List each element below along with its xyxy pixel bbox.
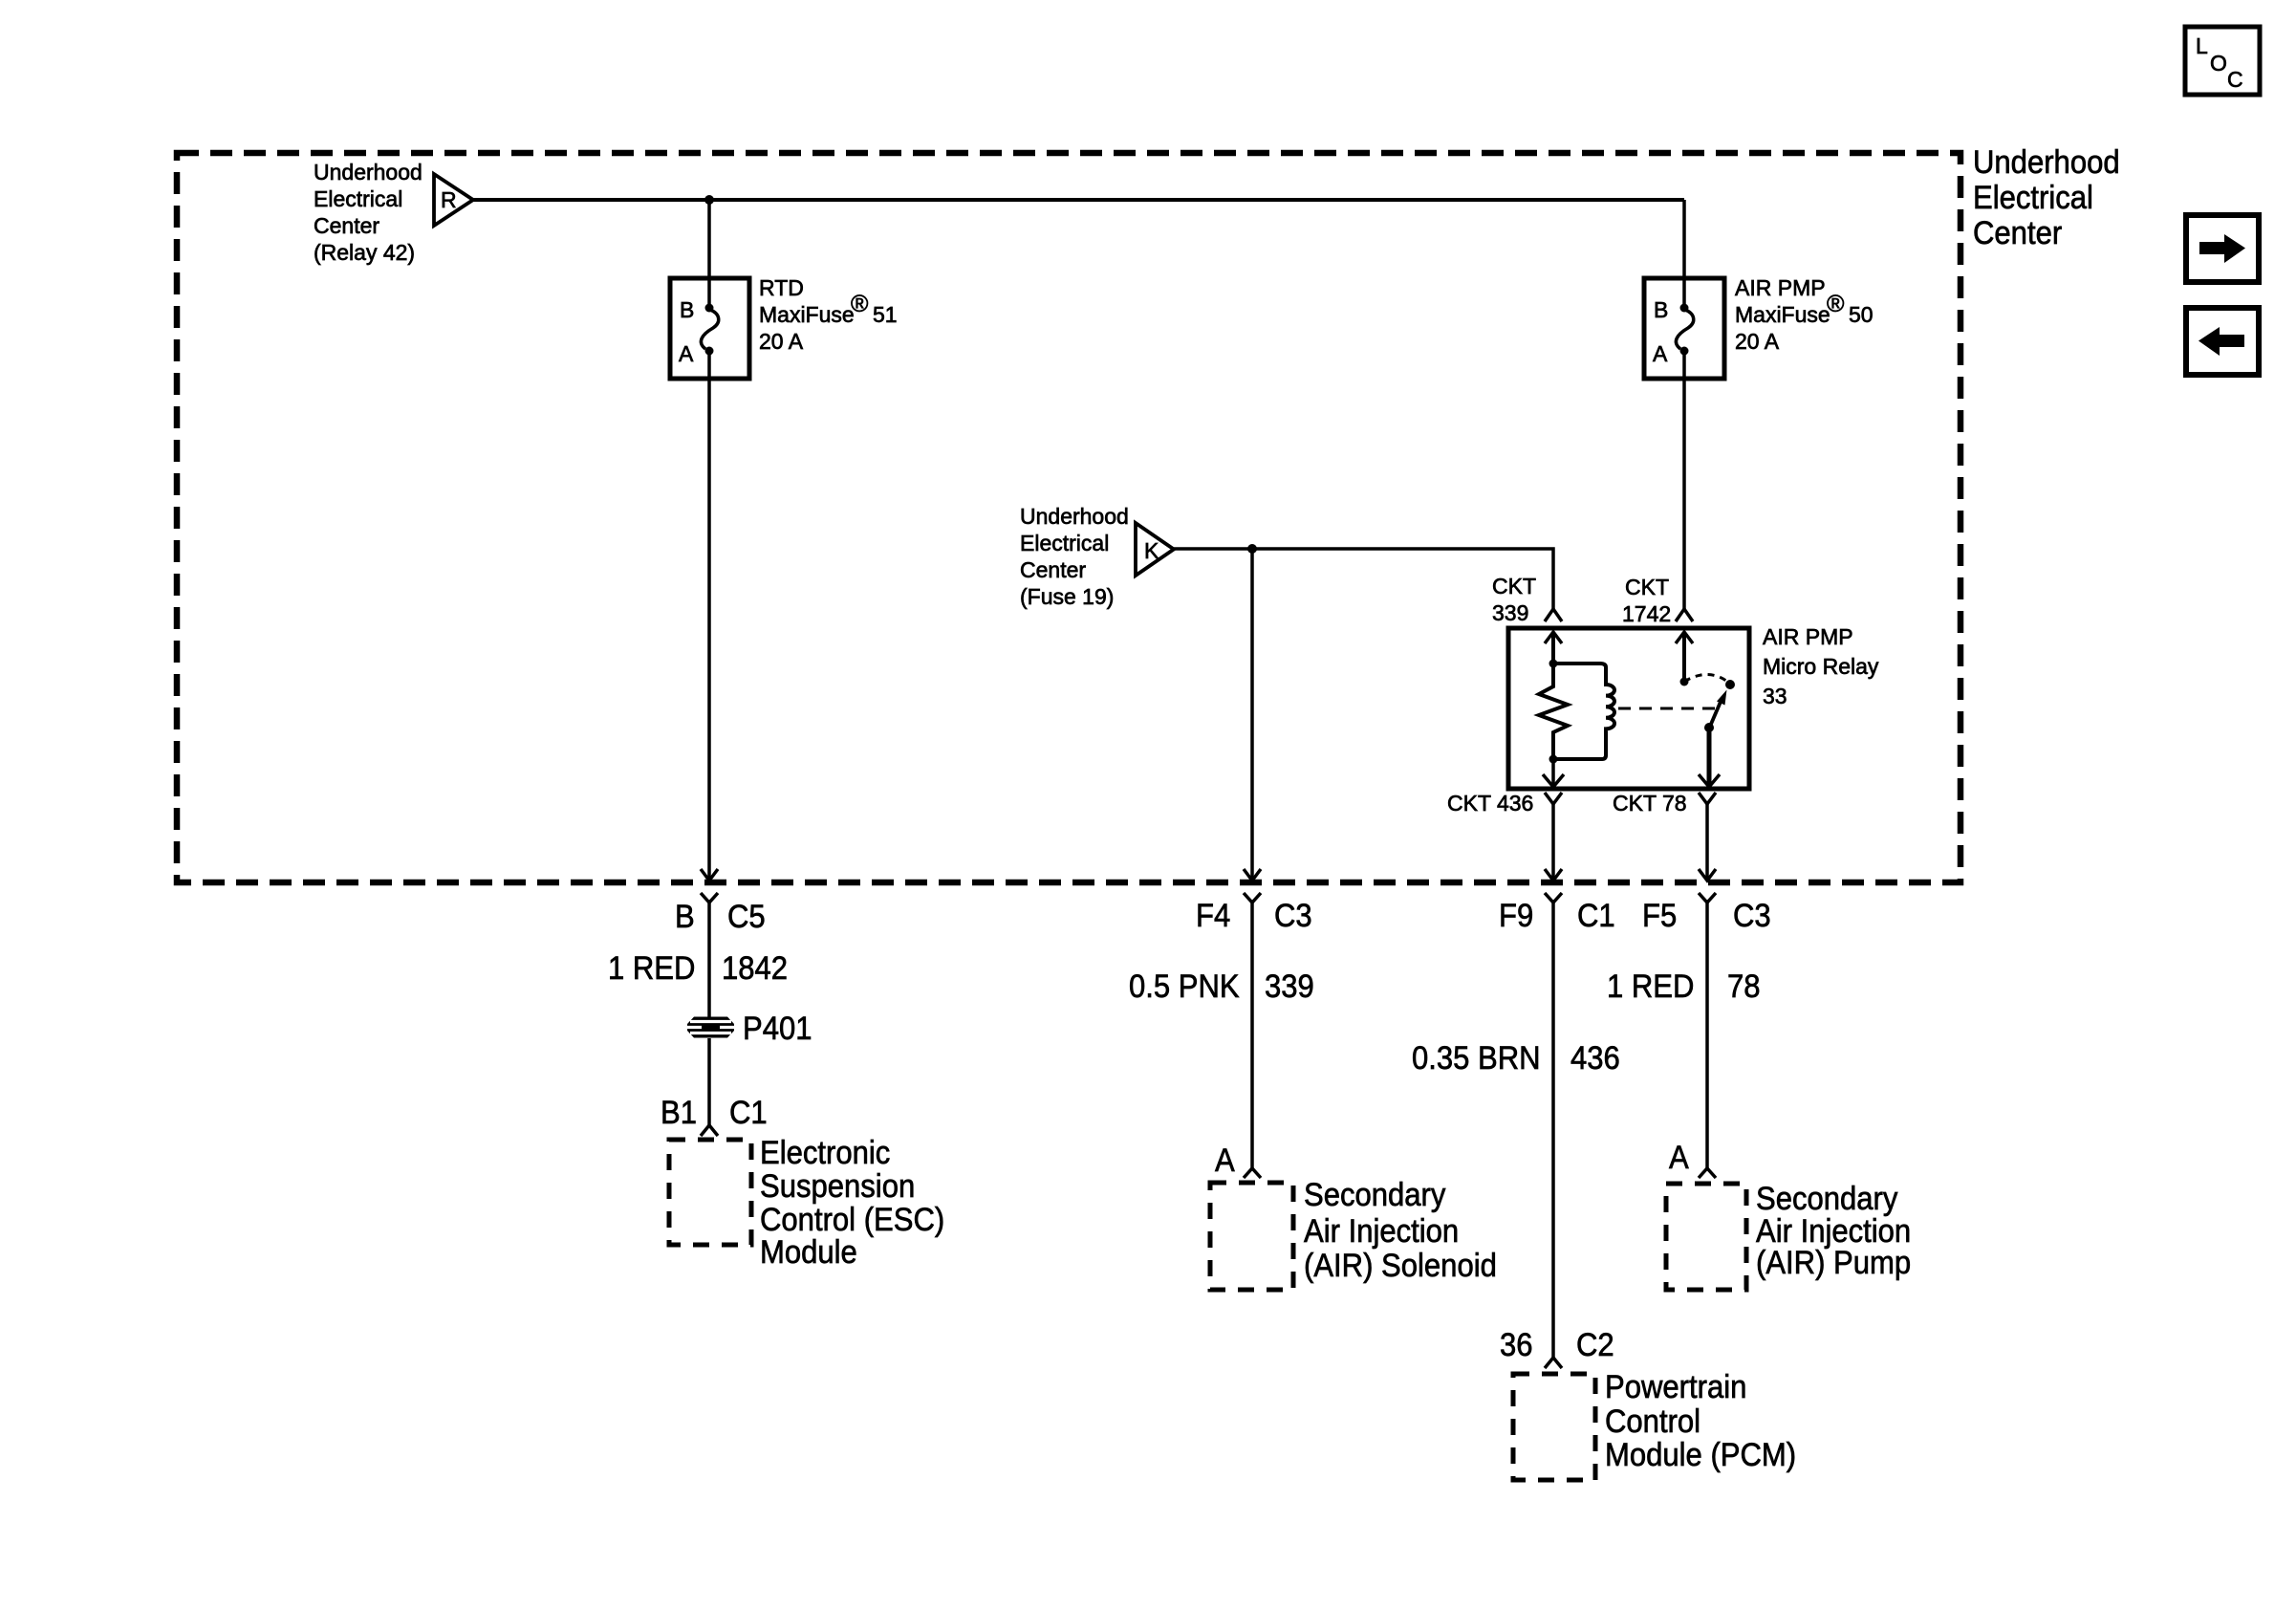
svg-text:36: 36 (1500, 1325, 1533, 1362)
svg-text:P401: P401 (743, 1009, 812, 1046)
svg-text:A: A (1215, 1141, 1235, 1178)
svg-text:AIR PMP: AIR PMP (1735, 275, 1826, 300)
PCM module (dashed) (1513, 1374, 1595, 1480)
svg-text:339: 339 (1492, 600, 1528, 625)
svg-text:CKT: CKT (1492, 574, 1536, 598)
svg-text:L: L (2196, 33, 2208, 58)
svg-text:CKT 78: CKT 78 (1613, 791, 1687, 816)
relay coil top node (1549, 660, 1558, 668)
connector 36/C2 at PCM (1500, 1325, 1614, 1368)
wire: AIR PMP fuse feed drop (1682, 200, 1686, 307)
relay switch arm with arrowhead (1709, 690, 1727, 729)
svg-text:(Fuse 19): (Fuse 19) (1020, 584, 1114, 609)
label: Underhood Electrical Center (outside right) (1973, 142, 2120, 250)
svg-text:Center: Center (314, 213, 379, 238)
svg-text:MaxiFuse: MaxiFuse (759, 302, 855, 327)
relay pin arrow CKT 339 (male pin up) (1545, 632, 1562, 664)
label: Underhood Electrical Center (Relay 42) (314, 160, 422, 265)
svg-text:CKT: CKT (1625, 575, 1669, 599)
svg-text:Electrical: Electrical (1020, 531, 1109, 555)
svg-text:®: ® (1827, 291, 1845, 317)
svg-text:436: 436 (1570, 1038, 1620, 1076)
Underhood Electrical Center enclosure (dashed) (177, 153, 1960, 882)
relay pin arrow CKT 78 (male pin down) (1699, 728, 1720, 787)
svg-text:Secondary: Secondary (1304, 1175, 1446, 1212)
connector B/C5 at border (675, 893, 766, 934)
svg-text:Center: Center (1973, 213, 2062, 250)
svg-text:®: ® (851, 291, 869, 317)
svg-text:(AIR) Pump: (AIR) Pump (1756, 1243, 1911, 1280)
connector chevron CKT 1742 into relay (1676, 609, 1693, 621)
relay AIR PMP Micro Relay 33 (1508, 628, 1749, 789)
svg-text:CKT 436: CKT 436 (1447, 791, 1533, 816)
wire: junction down to border (CKT 339 to solenoid) (1244, 549, 1261, 881)
fuse RTD MaxiFuse 51 (670, 278, 749, 379)
svg-text:Center: Center (1020, 557, 1086, 582)
wire: C3 to AIR solenoid (1250, 903, 1254, 1168)
svg-text:A: A (679, 341, 694, 366)
svg-text:C1: C1 (729, 1093, 768, 1130)
label: RTD MaxiFuse 51 20 A (759, 275, 898, 354)
svg-text:O: O (2210, 51, 2227, 76)
wire: junction down to RTD fuse (707, 200, 711, 307)
svg-text:K: K (1144, 538, 1159, 563)
connector pin A at AIR solenoid (1215, 1141, 1261, 1178)
relay switch common node (1680, 678, 1689, 686)
relay switch dashed throw curve (1684, 674, 1730, 684)
relay switch arm node (1704, 723, 1714, 732)
off-page connector triangle R (434, 174, 473, 226)
connector F5/C3 at border (1642, 893, 1771, 933)
label: Powertrain Control Module (PCM) (1605, 1367, 1796, 1472)
svg-text:Underhood: Underhood (1973, 142, 2120, 180)
connector chevron below relay CKT 78 (1699, 793, 1716, 804)
svg-text:Underhood: Underhood (1020, 504, 1129, 529)
svg-text:B1: B1 (661, 1093, 697, 1130)
svg-text:RTD: RTD (759, 275, 804, 300)
svg-text:C5: C5 (727, 897, 766, 934)
svg-text:Air Injection: Air Injection (1304, 1211, 1459, 1249)
svg-text:20 A: 20 A (759, 329, 804, 354)
svg-text:MaxiFuse: MaxiFuse (1735, 302, 1830, 327)
svg-text:B: B (1654, 297, 1668, 322)
svg-text:Module (PCM): Module (PCM) (1605, 1435, 1796, 1472)
connector chevron below relay CKT 436 (1545, 793, 1562, 804)
svg-text:Micro Relay: Micro Relay (1763, 654, 1879, 679)
AIR solenoid module (dashed) (1210, 1183, 1293, 1290)
svg-text:C: C (2227, 67, 2243, 92)
connector chevron CKT 339 into relay (1545, 609, 1562, 621)
svg-text:33: 33 (1763, 684, 1787, 708)
svg-text:F9: F9 (1499, 896, 1533, 933)
wire: RTD fuse down to border (701, 351, 718, 881)
label: 1 RED 78 (1607, 967, 1761, 1004)
wire: CKT 436 relay to border (1545, 804, 1562, 881)
svg-text:F5: F5 (1642, 896, 1677, 933)
svg-text:1 RED: 1 RED (1607, 967, 1694, 1004)
svg-text:1742: 1742 (1622, 601, 1671, 626)
svg-text:C2: C2 (1576, 1325, 1614, 1362)
svg-text:Module: Module (760, 1232, 857, 1270)
svg-text:Electrical: Electrical (314, 186, 402, 211)
svg-text:(Relay 42): (Relay 42) (314, 240, 415, 265)
wire: C5 to P401 (707, 903, 711, 1017)
label: Underhood Electrical Center (Fuse 19) (1020, 504, 1129, 609)
svg-text:78: 78 (1727, 967, 1761, 1004)
connector B1/C1 at ESC (661, 1093, 768, 1136)
relay switch contact node (1725, 680, 1735, 689)
svg-text:A: A (1669, 1138, 1689, 1175)
svg-text:339: 339 (1265, 967, 1314, 1004)
ESC module (dashed) (669, 1140, 751, 1245)
svg-text:Control: Control (1605, 1402, 1700, 1439)
back arrow legend box (2186, 308, 2259, 375)
LOC legend box (2185, 27, 2260, 95)
svg-text:Underhood: Underhood (314, 160, 422, 185)
label: CKT 1742 (1622, 575, 1671, 626)
relay coil (1557, 664, 1614, 759)
label: Secondary Air Injection (AIR) Pump (1756, 1179, 1911, 1280)
connector pin A at AIR pump (1669, 1138, 1716, 1178)
svg-text:0.35 BRN: 0.35 BRN (1412, 1038, 1541, 1076)
relay pin arrow CKT 436 (male pin down) (1543, 759, 1564, 787)
wire: CKT 78 relay to border (1699, 804, 1716, 881)
connector F4/C3 at border (1196, 893, 1312, 933)
svg-text:C3: C3 (1733, 896, 1771, 933)
relay pin arrow CKT 1742 (male pin up) (1676, 632, 1693, 682)
svg-text:AIR PMP: AIR PMP (1763, 624, 1853, 649)
relay resistor (1539, 664, 1568, 759)
label: CKT 78 (1613, 791, 1687, 816)
svg-text:Powertrain: Powertrain (1605, 1367, 1746, 1404)
label: Secondary Air Injection (AIR) Solenoid (1304, 1175, 1497, 1283)
svg-text:51: 51 (873, 302, 898, 327)
label: AIR PMP MaxiFuse 50 20 A (1735, 275, 1874, 354)
label: CKT 339 (1492, 574, 1536, 625)
svg-text:C3: C3 (1274, 896, 1312, 933)
splice P401 (687, 1009, 812, 1046)
relay armature linkage (dashed) (1618, 707, 1718, 710)
wire: C1 to PCM (1551, 903, 1555, 1358)
svg-text:20 A: 20 A (1735, 329, 1780, 354)
label: 0.35 BRN 436 (1412, 1038, 1620, 1076)
svg-text:50: 50 (1849, 302, 1874, 327)
svg-text:B: B (680, 297, 694, 322)
wire: P401 to ESC module (707, 1038, 711, 1125)
wire: AIR PMP fuse down to relay pin (1682, 351, 1686, 609)
label: AIR PMP Micro Relay 33 (1763, 624, 1879, 708)
label: 0.5 PNK 339 (1129, 967, 1314, 1004)
label: 1 RED 1842 (608, 948, 788, 986)
svg-text:0.5 PNK: 0.5 PNK (1129, 967, 1240, 1004)
svg-text:Suspension: Suspension (760, 1166, 915, 1204)
svg-text:B: B (675, 897, 695, 934)
junction node on fuse 19 feed (1247, 544, 1257, 554)
wire: relay 42 feed bus (473, 198, 1684, 202)
svg-text:C1: C1 (1577, 896, 1615, 933)
svg-text:1 RED: 1 RED (608, 948, 695, 986)
label: Electronic Suspension Control (ESC) Module (760, 1133, 944, 1270)
wire: fuse 19 feed (1174, 549, 1553, 609)
fuse AIR PMP MaxiFuse 50 (1644, 278, 1724, 379)
svg-text:F4: F4 (1196, 896, 1230, 933)
connector F9/C1 at border (1499, 893, 1615, 933)
AIR pump module (dashed) (1666, 1184, 1746, 1290)
svg-text:1842: 1842 (722, 948, 788, 986)
off-page connector triangle K (1136, 523, 1174, 576)
svg-text:Electrical: Electrical (1973, 178, 2093, 215)
svg-text:R: R (441, 187, 457, 212)
svg-text:(AIR) Solenoid: (AIR) Solenoid (1304, 1246, 1497, 1283)
svg-text:Electronic: Electronic (760, 1133, 890, 1170)
junction node on feed bus (704, 195, 714, 205)
wire: C3 to AIR pump (1705, 903, 1709, 1168)
forward arrow legend box (2186, 215, 2259, 282)
relay coil bottom node (1549, 755, 1558, 764)
svg-text:A: A (1653, 341, 1668, 366)
label: CKT 436 (1447, 791, 1533, 816)
